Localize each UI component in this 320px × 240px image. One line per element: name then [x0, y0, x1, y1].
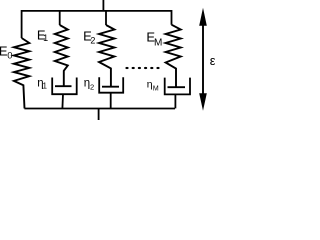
svg-text:ε: ε [210, 53, 215, 68]
svg-text:M: M [154, 37, 162, 48]
svg-text:2: 2 [90, 83, 94, 92]
svg-text:1: 1 [43, 33, 48, 43]
svg-text:1: 1 [43, 82, 48, 91]
svg-text:2: 2 [90, 36, 95, 46]
svg-text:M: M [153, 86, 159, 93]
svg-text:η: η [147, 79, 153, 91]
svg-text:0: 0 [7, 51, 12, 62]
